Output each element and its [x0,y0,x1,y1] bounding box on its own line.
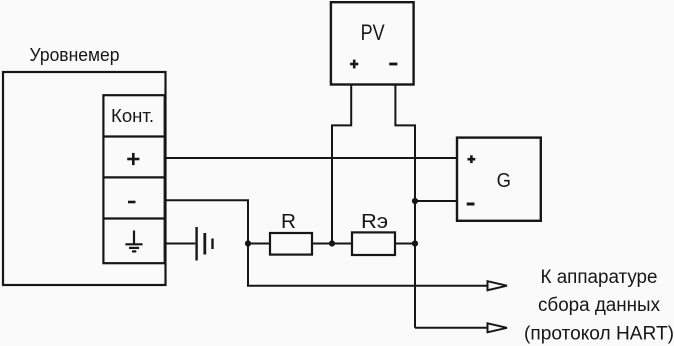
terminal block Конт. [103,95,164,263]
battery GB1 [197,227,213,261]
svg-text:(протокол HART): (протокол HART) [524,324,674,345]
G terminal - label [467,203,475,206]
resistor R [270,233,312,255]
node A junction dot [245,240,251,246]
svg-text:Rэ: Rэ [361,210,388,233]
PV terminal - label [389,63,397,66]
node B junction dot [329,240,335,246]
svg-text:сбора данных: сбора данных [538,295,660,316]
wire PV+ lead down to node B [332,85,351,244]
voltmeter PV box [331,2,414,84]
wire node D to G minus [415,200,457,202]
wire Rэ to node C [395,243,415,245]
wire ground terminal to battery [165,243,196,245]
wire - terminal to node A [165,200,248,243]
wire node A down to HART line 1 [248,244,488,286]
node D junction dot [412,198,418,204]
svg-text:К аппаратуре: К аппаратуре [541,267,658,288]
resistor Rэ [352,232,395,255]
level gauge outline box [3,72,166,285]
wire + terminal to G [165,157,457,159]
wire R to node B [312,243,352,245]
terminal - label [128,201,136,204]
wire PV- lead down bus [395,85,415,328]
generator G box [457,138,541,221]
arrowhead HART line 2 [488,323,508,332]
svg-text:G: G [497,170,511,192]
PV terminal + label [350,60,358,69]
arrowhead HART line 1 [488,281,508,290]
svg-text:R: R [281,210,296,233]
svg-text:Конт.: Конт. [111,106,154,126]
svg-text:PV: PV [361,20,385,45]
wire bus down to HART line 2 [415,327,488,329]
node C junction dot [412,240,418,246]
terminal + label [127,153,139,165]
G terminal + label [468,155,476,163]
wire node A to resistor R [248,243,270,245]
svg-text:Уровнемер: Уровнемер [30,45,120,65]
ground symbol in terminal cell [125,231,142,252]
